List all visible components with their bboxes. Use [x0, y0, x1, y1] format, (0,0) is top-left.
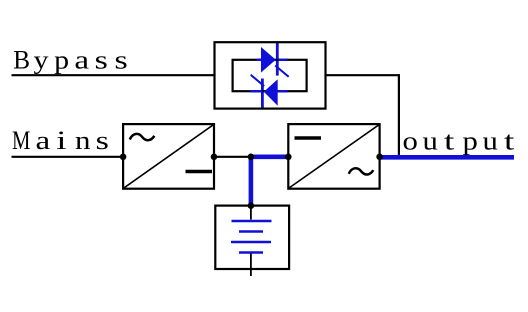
battery B1 plate 3 long — [231, 241, 271, 244]
thyristor SCR2 gate — [251, 75, 265, 86]
wire mains line left — [12, 156, 124, 158]
battery B1 box — [215, 206, 289, 269]
svg-text:o: o — [403, 126, 418, 156]
svg-text:a: a — [36, 126, 51, 155]
junction battery terminal — [248, 202, 255, 209]
junction rectifier output — [211, 154, 218, 161]
svg-text:B: B — [13, 45, 30, 75]
junction inverter output — [376, 154, 383, 161]
wire bypass line left — [12, 74, 215, 76]
thyristor SCR2 cathode bar — [261, 79, 264, 109]
node output label — [403, 126, 515, 156]
inverter U2 AC tilde — [349, 168, 374, 174]
wire rectifier to junction — [214, 156, 251, 158]
junction rectifier input — [120, 154, 127, 161]
battery B1 bottom lead — [250, 254, 252, 277]
battery B1 plate 4 short — [239, 251, 263, 254]
inverter U2 DC minus — [295, 136, 322, 139]
switch S1 inner loop box — [233, 60, 307, 91]
rectifier U1 DC minus — [186, 170, 213, 173]
switch S1 static bypass outer box — [215, 42, 326, 108]
wire bypass drop to output — [398, 74, 400, 157]
thyristor SCR2 lead right — [278, 90, 288, 92]
svg-text:p: p — [463, 126, 478, 156]
node Mains label — [12, 125, 109, 156]
svg-text:i: i — [56, 125, 66, 155]
wire DC bus blue vertical to battery — [249, 155, 254, 206]
inverter U2 diagonal — [289, 125, 379, 188]
rectifier U1 diagonal — [124, 125, 214, 188]
battery B1 plate 1 long — [232, 220, 272, 223]
svg-text:s: s — [114, 45, 127, 74]
svg-text:u: u — [483, 126, 498, 156]
svg-text:a: a — [74, 46, 89, 75]
thyristor SCR1 triangle — [261, 47, 276, 73]
svg-text:s: s — [96, 126, 109, 155]
wire output blue — [380, 155, 514, 160]
thyristor SCR1 lead right — [279, 59, 288, 61]
thyristor SCR1 lead left — [257, 59, 262, 61]
junction inverter input — [285, 154, 292, 161]
thyristor SCR2 lead left — [250, 90, 262, 92]
battery B1 top lead — [250, 206, 252, 220]
svg-text:y: y — [34, 46, 50, 75]
svg-text:n: n — [75, 126, 91, 155]
inverter U2 box — [288, 124, 379, 189]
svg-text:t: t — [504, 126, 514, 156]
svg-text:M: M — [12, 127, 30, 156]
wire bypass line right — [326, 74, 399, 76]
thyristor SCR1 gate — [275, 66, 289, 77]
svg-text:u: u — [423, 126, 438, 156]
junction DC bus — [248, 154, 255, 161]
svg-text:s: s — [95, 45, 108, 74]
battery B1 plate 2 short — [239, 230, 263, 233]
rectifier U1 AC tilde — [130, 134, 155, 140]
svg-text:p: p — [54, 46, 69, 75]
rectifier U1 box — [123, 124, 214, 189]
node Bypass label — [13, 45, 128, 75]
wire DC bus blue horizontal — [250, 155, 291, 160]
thyristor SCR2 triangle — [264, 79, 278, 106]
thyristor SCR1 cathode bar — [276, 42, 279, 76]
svg-text:t: t — [444, 126, 454, 156]
